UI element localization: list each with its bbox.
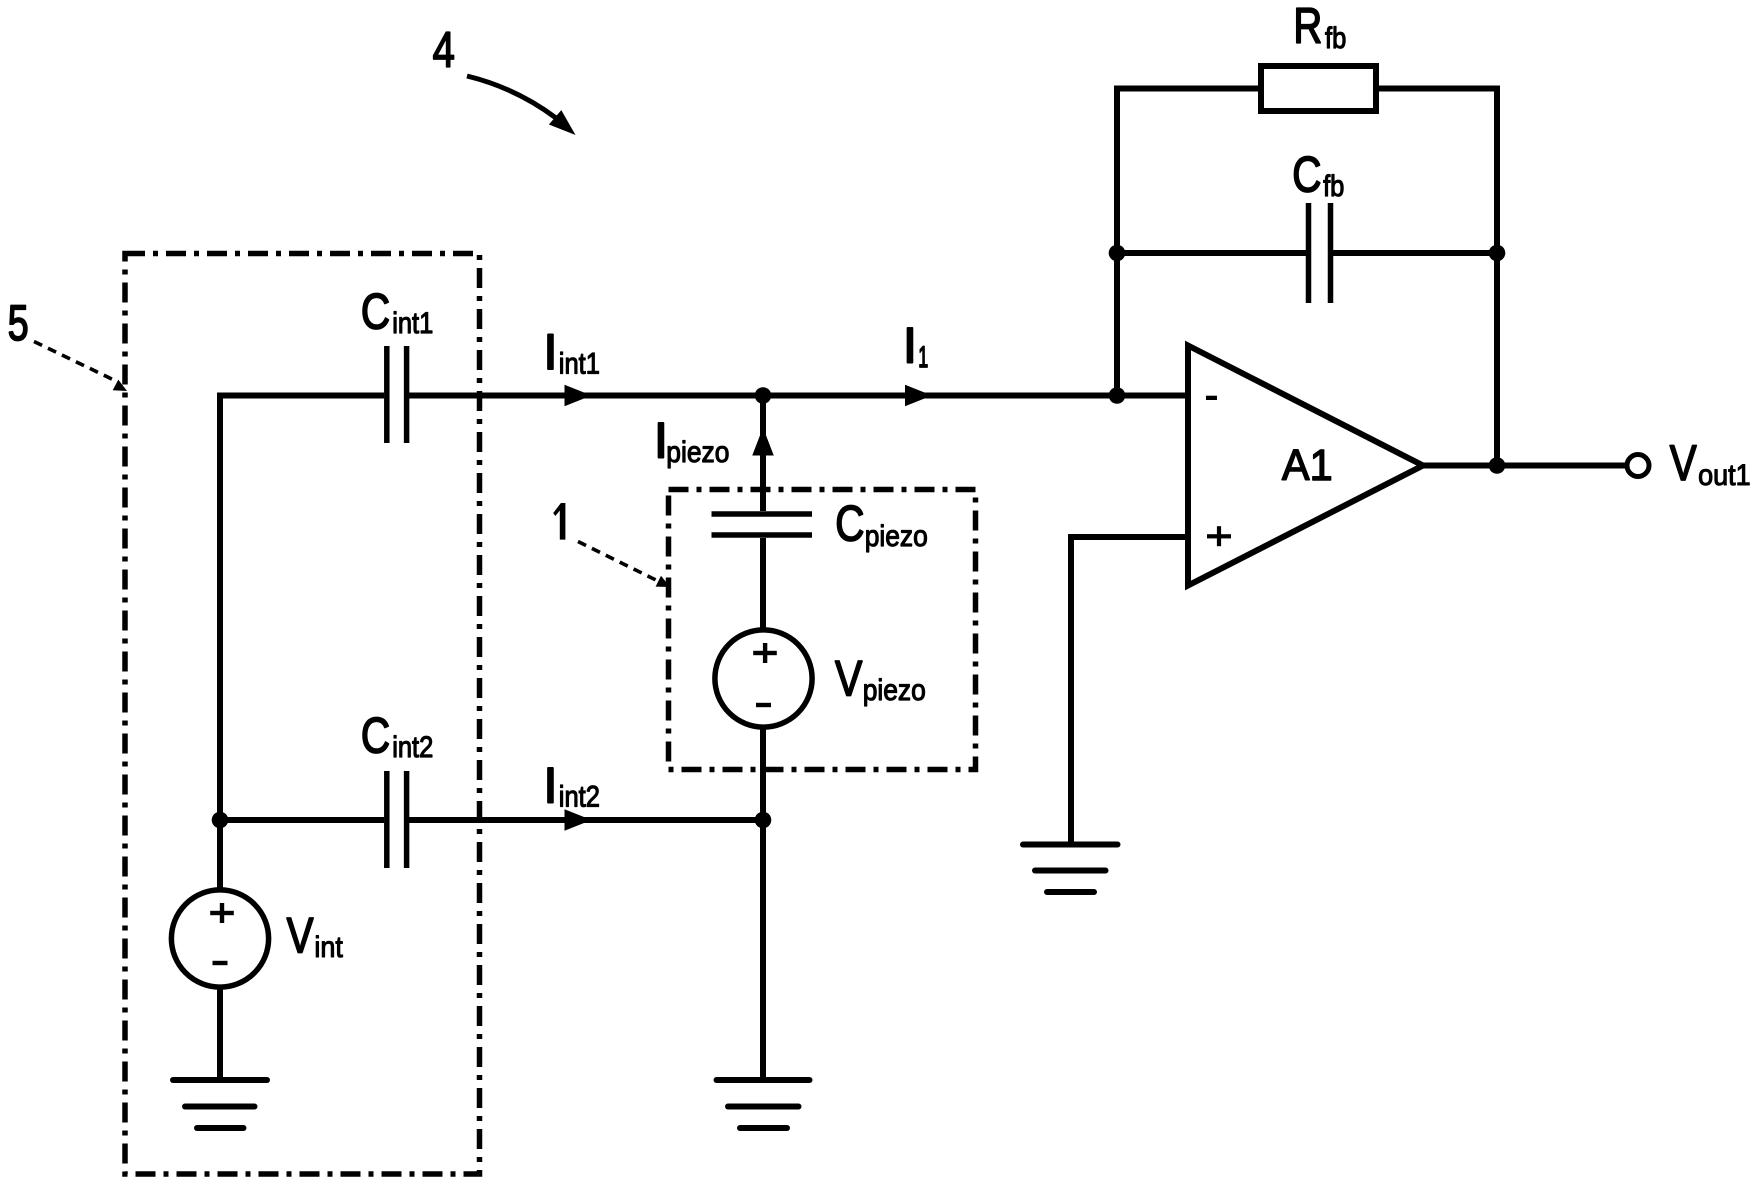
wire: Rfb to output node — [1379, 89, 1497, 466]
piezo sensor block box 1 — [669, 490, 976, 770]
current arrow Iint2 — [565, 809, 592, 831]
wire: between Cpiezo and Vpiezo — [760, 538, 766, 630]
svg-text:V: V — [1670, 435, 1698, 491]
current arrow I1 — [905, 385, 932, 407]
label Cint1 — [361, 283, 433, 339]
node: junction at output — [1489, 457, 1506, 474]
svg-text:C: C — [1292, 146, 1321, 202]
svg-text:1: 1 — [918, 342, 928, 375]
output terminal Vout1 — [1627, 455, 1649, 477]
wire: op-amp output — [1423, 463, 1627, 469]
ground (under op-amp non-inverting input) — [1023, 845, 1118, 893]
sensor interference block box 5 — [125, 254, 480, 1175]
leader line for 5 — [34, 342, 127, 392]
capacitor Cint1 — [387, 346, 407, 443]
svg-text:out1: out1 — [1698, 459, 1751, 493]
leader arrow for 4 — [467, 76, 576, 135]
node: junction Vint top — [212, 812, 229, 829]
ground (under piezo branch) — [717, 1080, 810, 1128]
node: junction feedback left on Cfb row — [1109, 245, 1126, 262]
wire: Cint2 row left — [220, 817, 384, 823]
svg-text:V: V — [287, 908, 315, 964]
reference numeral 1 — [553, 503, 565, 540]
resistor Rfb — [1261, 66, 1376, 111]
wire: Cfb row right — [1333, 250, 1497, 256]
node: junction feedback right on Cfb row — [1489, 245, 1506, 262]
op-amp U1 triangle — [1188, 346, 1423, 586]
voltage source Vint — [171, 890, 268, 987]
svg-text:I: I — [544, 757, 558, 813]
label Cint2 — [361, 707, 433, 763]
wire: Cint2 row right — [409, 817, 763, 823]
node: junction at inverting input — [1109, 387, 1126, 404]
svg-text:piezo: piezo — [666, 434, 729, 468]
wire: Cfb row left — [1117, 250, 1306, 256]
svg-text:I: I — [903, 317, 917, 373]
op-amp inverting input minus sign — [1206, 396, 1217, 400]
wire: Vpiezo to middle ground — [760, 727, 766, 1080]
current arrow Ipiezo — [752, 428, 774, 456]
wire: non-inverting input to ground — [1071, 537, 1188, 845]
reference numeral 5 — [8, 296, 29, 351]
node: junction piezo bottom — [755, 812, 772, 829]
label Cfb — [1292, 146, 1344, 202]
wire: left vertical and top row to Cint1 — [220, 396, 384, 891]
voltage source Vpiezo — [715, 630, 812, 727]
label Vpiezo — [835, 651, 926, 707]
label Ipiezo — [654, 412, 729, 468]
wire: feedback left riser to Rfb — [1117, 89, 1258, 396]
svg-text:R: R — [1293, 0, 1322, 54]
svg-text:fb: fb — [1323, 169, 1344, 202]
svg-text:piezo: piezo — [863, 672, 926, 706]
label Vout1 — [1670, 435, 1751, 493]
label Iint1 — [544, 324, 600, 380]
svg-text:int: int — [314, 931, 343, 965]
svg-text:int2: int2 — [392, 730, 433, 763]
svg-text:int1: int1 — [392, 306, 433, 339]
capacitor Cint2 — [387, 771, 407, 868]
svg-text:V: V — [835, 651, 863, 707]
capacitor Cpiezo — [712, 514, 813, 535]
node: junction at piezo tap on input wire — [755, 387, 772, 404]
wire: Vint to ground — [217, 987, 223, 1080]
svg-text:5: 5 — [8, 296, 29, 351]
svg-text:C: C — [361, 707, 390, 763]
ground (under Vint) — [173, 1080, 267, 1128]
current arrow Iint1 — [565, 385, 592, 407]
leader line for 1 — [578, 542, 670, 588]
svg-text:I: I — [544, 324, 558, 380]
svg-text:A1: A1 — [1282, 441, 1333, 490]
op-amp non-inverting input plus sign — [1207, 526, 1231, 546]
reference numeral 4 — [433, 22, 455, 78]
svg-text:piezo: piezo — [865, 518, 928, 552]
svg-text:int1: int1 — [559, 347, 600, 380]
label Rfb — [1293, 0, 1346, 54]
wire: piezo branch top — [760, 396, 766, 512]
svg-text:int2: int2 — [559, 780, 600, 813]
svg-text:C: C — [361, 283, 390, 339]
label Iint2 — [544, 757, 600, 813]
label Vint — [287, 908, 343, 965]
label I1 — [903, 317, 928, 374]
svg-text:C: C — [835, 495, 864, 551]
svg-text:4: 4 — [433, 22, 455, 78]
wire: Cint1 to op-amp inverting input — [409, 393, 1188, 399]
capacitor Cfb — [1309, 203, 1331, 303]
svg-text:fb: fb — [1325, 21, 1346, 54]
label Cpiezo — [835, 495, 928, 552]
